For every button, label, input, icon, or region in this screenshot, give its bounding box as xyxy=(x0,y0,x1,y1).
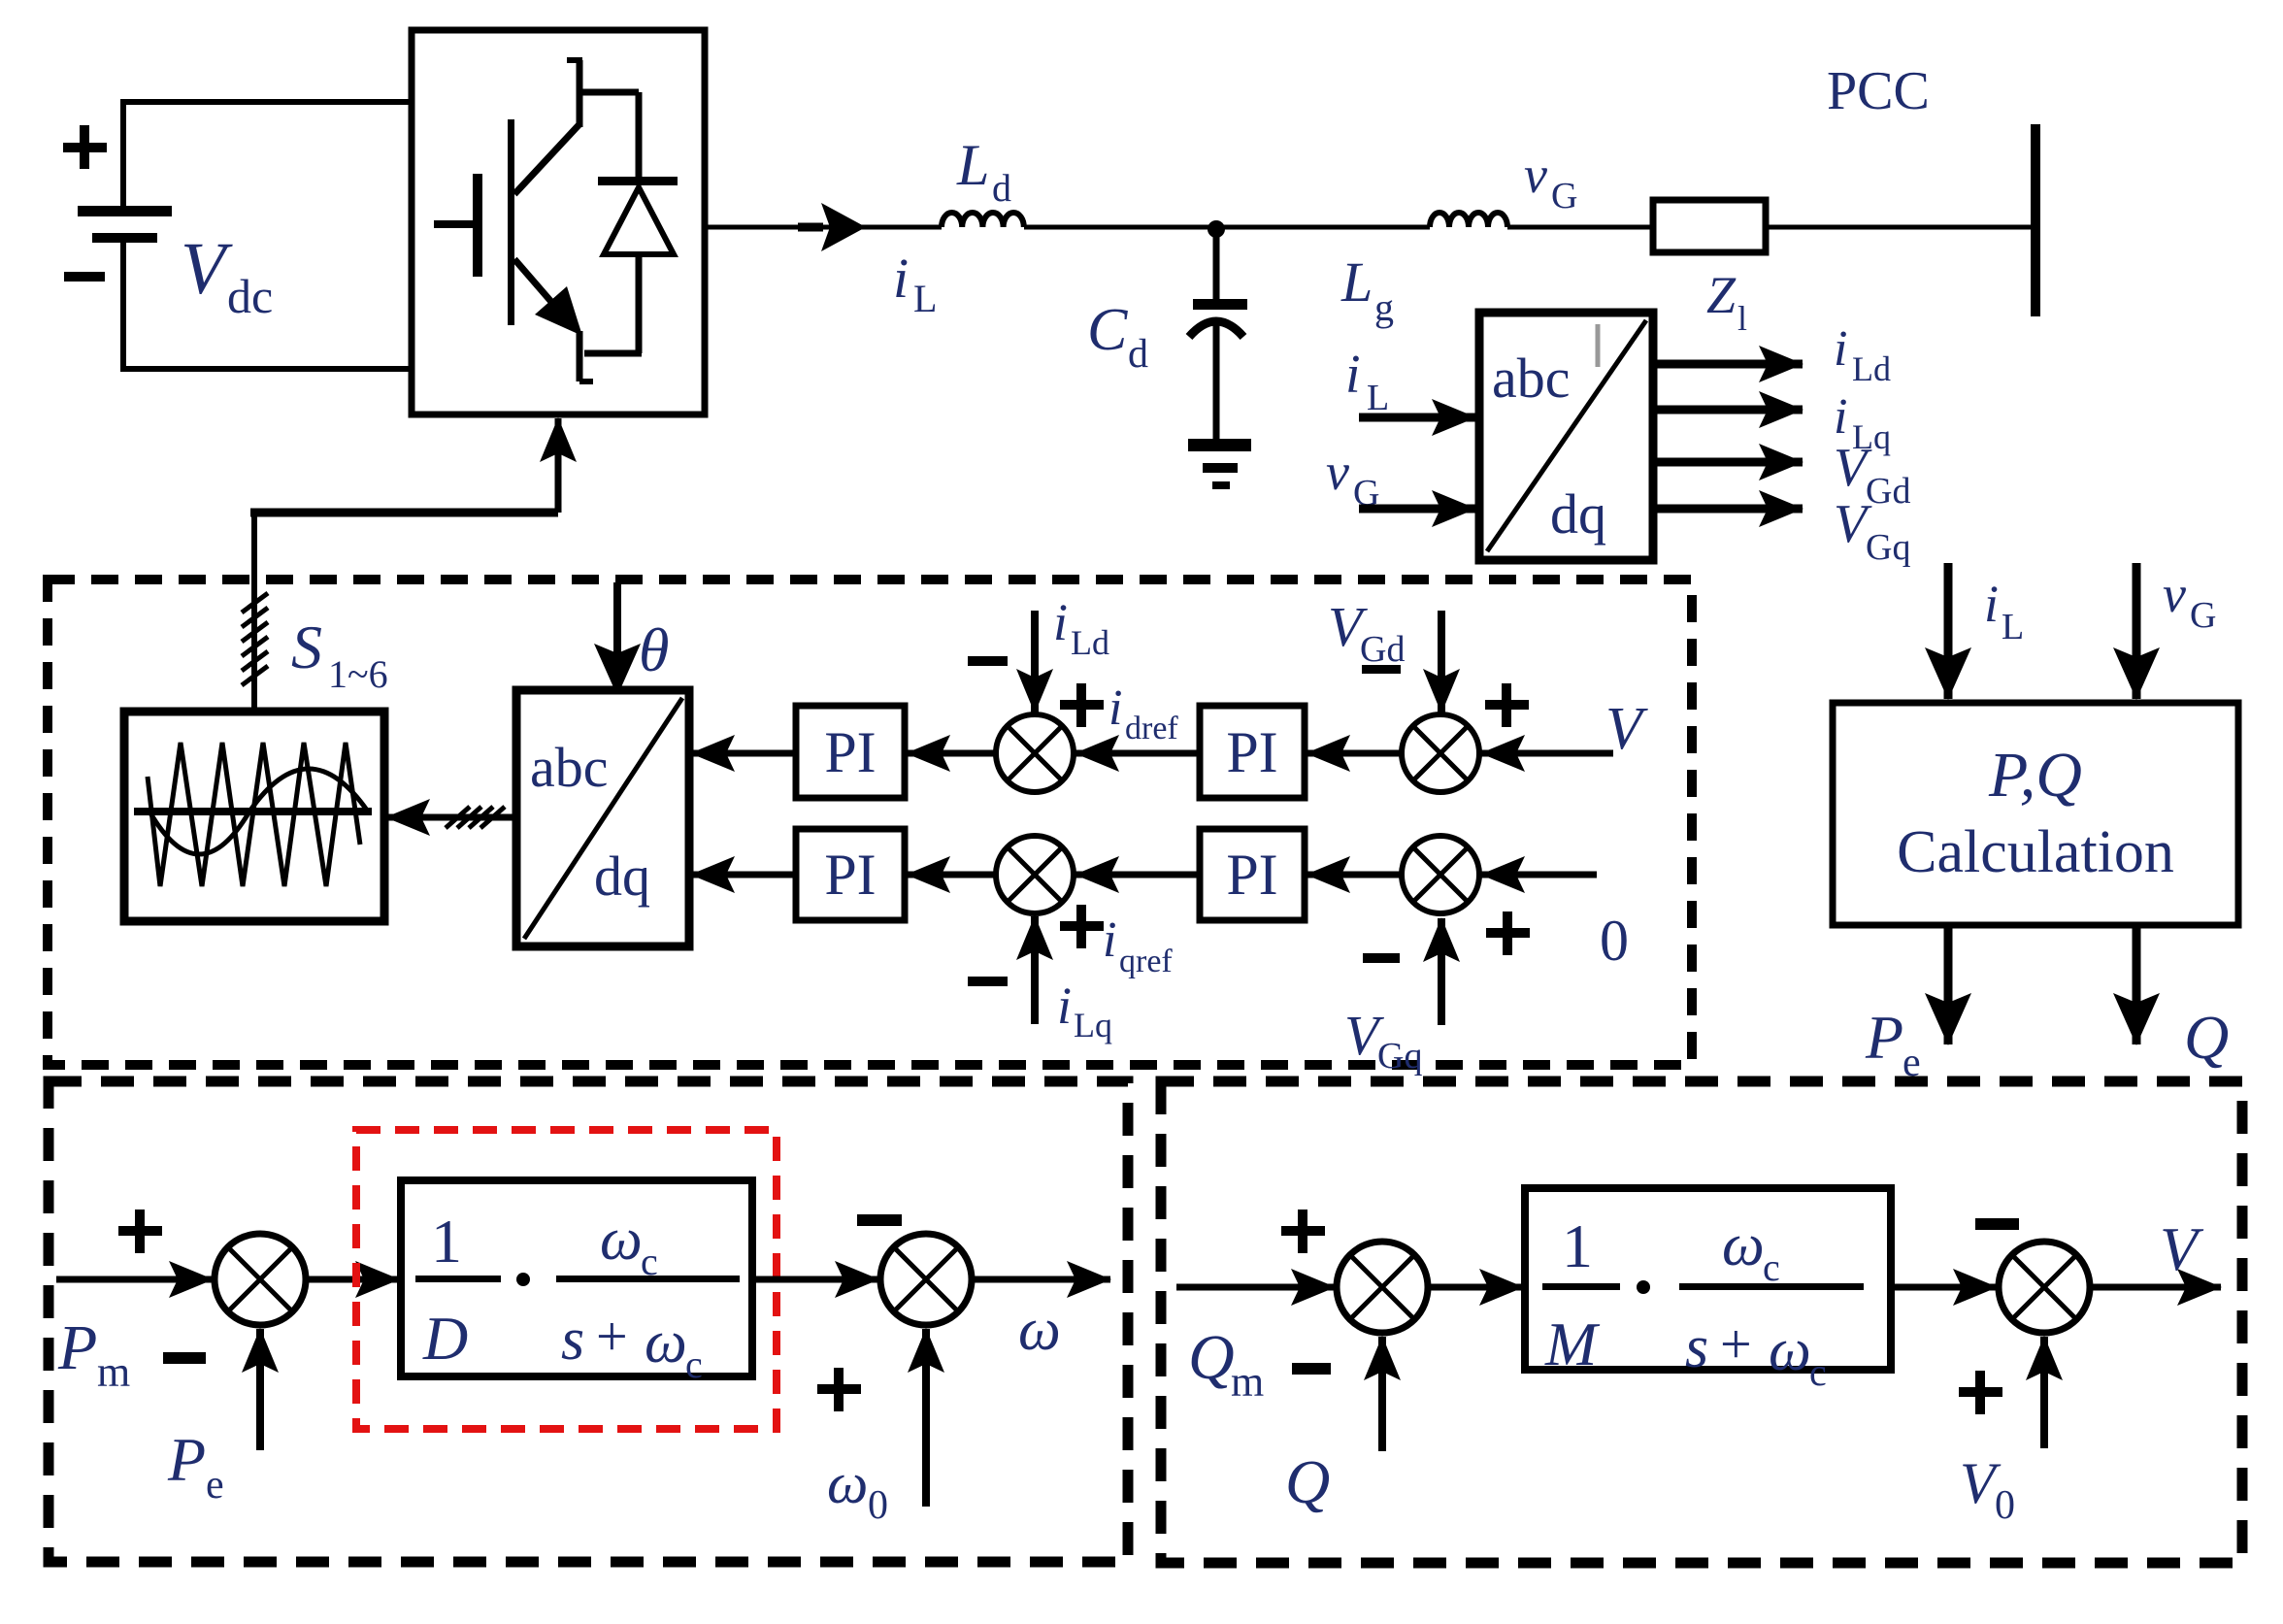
svg-text:ω: ω xyxy=(1722,1212,1765,1278)
svg-text:i: i xyxy=(893,247,909,310)
svg-text:PCC: PCC xyxy=(1827,61,1930,121)
svg-text:Q: Q xyxy=(1188,1322,1235,1393)
svg-text:0: 0 xyxy=(1995,1483,2015,1528)
svg-text:e: e xyxy=(206,1463,224,1508)
svg-text:Q: Q xyxy=(2184,1003,2229,1072)
svg-text:L: L xyxy=(913,277,937,320)
svg-text:Ld: Ld xyxy=(1071,623,1109,662)
svg-text:abc: abc xyxy=(530,736,609,799)
svg-text:ω: ω xyxy=(827,1451,868,1515)
svg-text:v: v xyxy=(1524,146,1547,204)
svg-text:V: V xyxy=(1605,696,1648,762)
svg-text:Gd: Gd xyxy=(1866,471,1910,512)
svg-text:P,Q: P,Q xyxy=(1988,740,2082,811)
svg-text:Calculation: Calculation xyxy=(1897,819,2174,885)
svg-text:P: P xyxy=(57,1312,97,1383)
svg-text:P: P xyxy=(1865,1003,1903,1072)
svg-text:V: V xyxy=(181,228,233,310)
svg-text:c: c xyxy=(1809,1350,1827,1394)
svg-text:PI: PI xyxy=(1226,720,1277,784)
svg-text:S: S xyxy=(291,613,322,681)
svg-text:Gq: Gq xyxy=(1377,1036,1422,1077)
svg-text:P: P xyxy=(167,1425,206,1494)
svg-text:dq: dq xyxy=(1550,482,1606,546)
svg-text:c: c xyxy=(1763,1245,1780,1289)
svg-text:1: 1 xyxy=(1562,1211,1593,1280)
svg-text:M: M xyxy=(1544,1309,1601,1378)
svg-text:v: v xyxy=(2163,565,2186,623)
svg-text:i: i xyxy=(1834,321,1847,377)
svg-text:d: d xyxy=(992,166,1011,210)
svg-text:abc: abc xyxy=(1492,347,1571,410)
svg-text:G: G xyxy=(2190,595,2216,636)
svg-text:+: + xyxy=(596,1305,628,1368)
svg-text:v: v xyxy=(1326,443,1349,501)
svg-text:ω: ω xyxy=(600,1207,643,1273)
svg-text:Ld: Ld xyxy=(1852,349,1891,388)
svg-text:e: e xyxy=(1902,1041,1921,1085)
svg-text:dq: dq xyxy=(594,845,650,908)
svg-text:Lq: Lq xyxy=(1074,1006,1112,1044)
svg-text:s: s xyxy=(1685,1314,1708,1380)
svg-text:PI: PI xyxy=(1226,843,1277,907)
svg-text:ω: ω xyxy=(1769,1317,1811,1383)
svg-text:+: + xyxy=(1720,1312,1752,1375)
svg-text:i: i xyxy=(1053,593,1068,651)
svg-text:c: c xyxy=(685,1342,703,1386)
svg-text:Gq: Gq xyxy=(1866,527,1910,568)
svg-text:i: i xyxy=(1345,345,1361,405)
svg-text:m: m xyxy=(1231,1358,1264,1406)
svg-text:PI: PI xyxy=(824,720,876,784)
svg-text:Gd: Gd xyxy=(1360,629,1405,670)
svg-text:dc: dc xyxy=(227,269,273,323)
svg-text:i: i xyxy=(1103,912,1116,968)
svg-text:s: s xyxy=(561,1307,584,1373)
svg-text:ω: ω xyxy=(645,1309,687,1375)
svg-text:i: i xyxy=(1984,575,1999,633)
svg-text:Q: Q xyxy=(1285,1447,1330,1516)
svg-text:l: l xyxy=(1737,299,1747,338)
svg-text:dref: dref xyxy=(1125,711,1178,746)
svg-text:Z: Z xyxy=(1706,266,1737,324)
svg-text:i: i xyxy=(1108,680,1122,736)
svg-text:ω: ω xyxy=(1018,1297,1061,1363)
svg-text:D: D xyxy=(422,1304,468,1373)
svg-text:g: g xyxy=(1374,285,1394,329)
svg-text:d: d xyxy=(1128,332,1148,377)
svg-text:PI: PI xyxy=(824,843,876,907)
svg-text:L: L xyxy=(956,133,989,197)
svg-text:0: 0 xyxy=(1600,909,1629,973)
svg-text:i: i xyxy=(1834,389,1847,445)
svg-text:0: 0 xyxy=(868,1483,888,1528)
svg-text:L: L xyxy=(1340,250,1373,314)
svg-text:L: L xyxy=(1367,378,1389,418)
svg-text:L: L xyxy=(2002,607,2024,647)
svg-text:i: i xyxy=(1057,977,1072,1035)
svg-text:qref: qref xyxy=(1119,944,1173,979)
svg-text:m: m xyxy=(97,1348,130,1396)
svg-text:G: G xyxy=(1551,176,1577,216)
svg-text:1: 1 xyxy=(431,1207,462,1276)
svg-text:1~6: 1~6 xyxy=(328,652,388,696)
svg-text:C: C xyxy=(1087,297,1128,363)
svg-text:θ: θ xyxy=(639,615,669,684)
